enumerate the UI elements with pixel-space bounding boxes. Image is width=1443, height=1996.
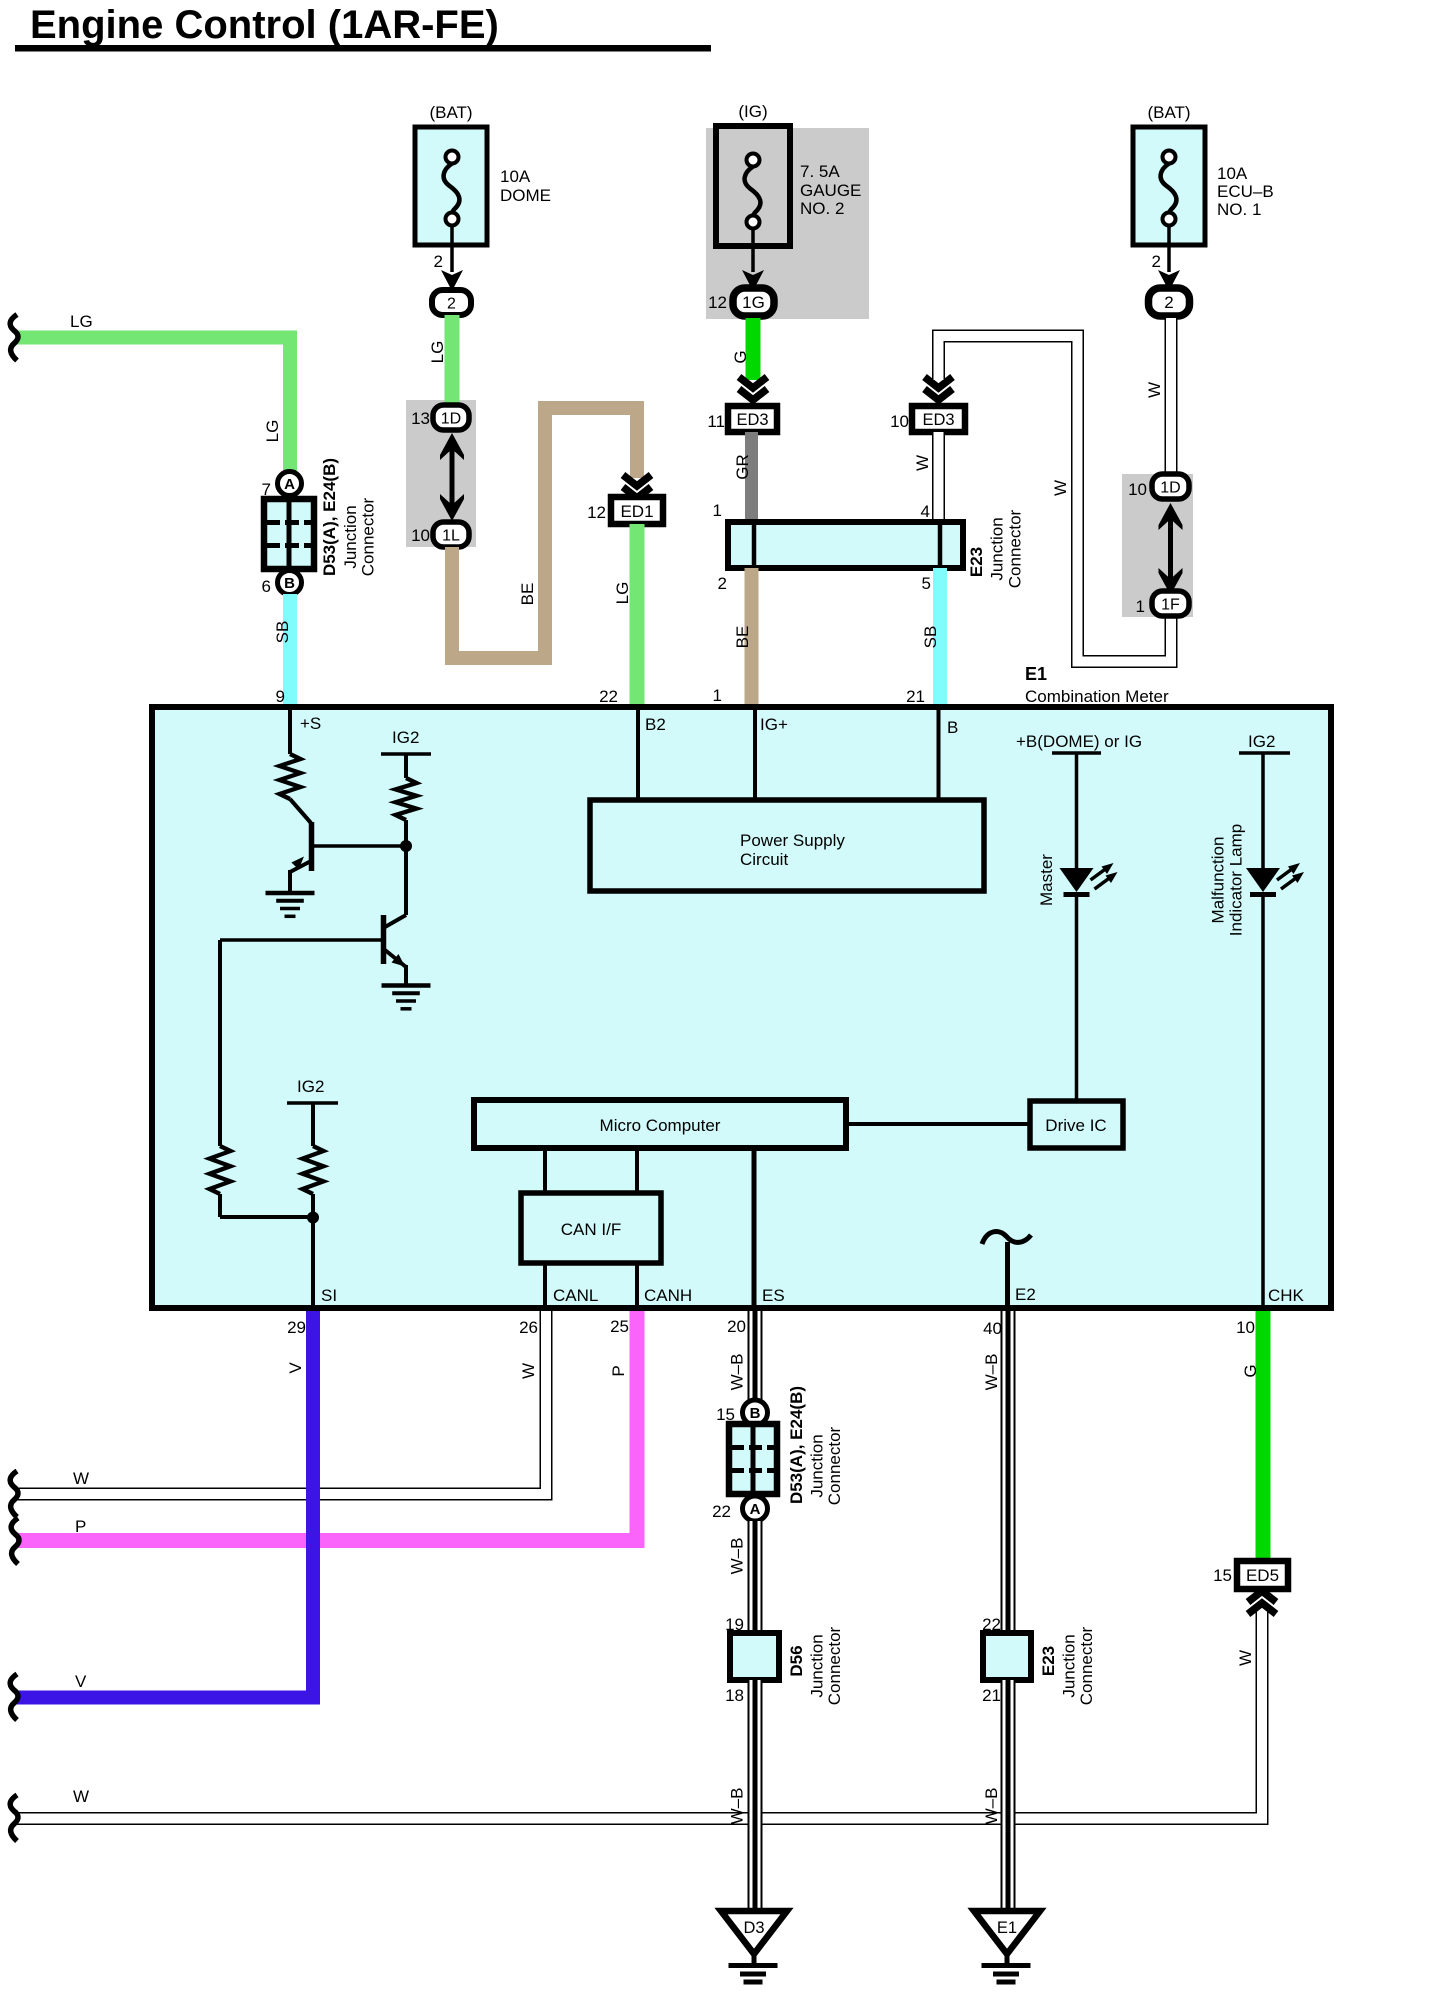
svg-text:E23: E23 <box>967 547 986 577</box>
svg-text:12: 12 <box>587 503 606 522</box>
svg-text:7. 5A: 7. 5A <box>800 162 840 181</box>
LED Master <box>1037 854 1118 906</box>
pin name labels bottom <box>321 1285 1305 1305</box>
ground (Q1 emitter) <box>266 891 315 896</box>
svg-text:2: 2 <box>718 574 727 593</box>
wire LG (DOME fuse to 1D) <box>428 315 452 405</box>
svg-text:Combination Meter: Combination Meter <box>1025 687 1169 706</box>
svg-text:40: 40 <box>983 1319 1002 1338</box>
svg-text:(IG): (IG) <box>738 102 767 121</box>
node (R3/R4/SI junction) <box>307 1212 319 1224</box>
svg-text:20: 20 <box>727 1317 746 1336</box>
transistor Q1 <box>290 799 406 891</box>
svg-text:ECU–B: ECU–B <box>1217 182 1274 201</box>
wire W-B (D56 to ground D3) <box>725 1680 755 1908</box>
svg-text:W: W <box>913 455 932 471</box>
wires micro computer to CAN I/F <box>543 1148 547 1193</box>
svg-text:1L: 1L <box>442 527 460 544</box>
svg-text:Junction: Junction <box>808 1634 827 1697</box>
svg-text:Power Supply: Power Supply <box>740 831 845 850</box>
svg-text:10: 10 <box>411 526 430 545</box>
svg-text:W: W <box>1051 480 1070 496</box>
svg-text:IG2: IG2 <box>1248 732 1275 751</box>
wire ES <box>752 1148 757 1305</box>
junction connector E23 (top) <box>728 509 1025 588</box>
svg-text:W: W <box>73 1787 89 1806</box>
svg-text:+S: +S <box>300 714 321 733</box>
svg-text:CHK: CHK <box>1268 1286 1305 1305</box>
svg-text:BE: BE <box>518 583 537 606</box>
wire LG (ED1 to combination meter pin 22) <box>599 524 637 706</box>
svg-text:13: 13 <box>411 409 430 428</box>
svg-text:Indicator Lamp: Indicator Lamp <box>1227 824 1246 936</box>
wire V (SI pin 29 to left break) <box>10 1311 313 1720</box>
connector ED3 pin 10 <box>890 377 965 432</box>
wire W (ED3 pin10 to E23 pin 4) <box>913 432 939 522</box>
svg-text:D53(A), E24(B): D53(A), E24(B) <box>320 458 339 576</box>
svg-text:Connector: Connector <box>1077 1626 1096 1705</box>
wire G (1G to ED3 pin 11) <box>731 318 753 380</box>
svg-text:LG: LG <box>428 341 447 364</box>
svg-text:W–B: W–B <box>728 1354 747 1391</box>
svg-text:Junction: Junction <box>1060 1634 1079 1697</box>
gray background GAUGE fuse area <box>706 128 869 319</box>
wire LG (left harness break to junction connector A) <box>10 312 290 471</box>
connector circle A (D53/E24) <box>712 1496 767 1521</box>
svg-text:IG+: IG+ <box>760 715 788 734</box>
svg-text:B: B <box>284 575 295 592</box>
svg-text:Connector: Connector <box>1006 509 1025 588</box>
svg-text:ED3: ED3 <box>922 411 954 429</box>
wire B2 to power supply <box>636 710 640 798</box>
svg-text:W: W <box>1145 382 1164 398</box>
svg-text:1F: 1F <box>1161 596 1180 613</box>
connector oval 1G <box>708 288 774 316</box>
wire SB (junction connector B to pin 9) <box>273 594 292 706</box>
wire W-B (E2 pin 40 to E23 junction) <box>982 1311 1008 1634</box>
svg-text:21: 21 <box>906 687 925 706</box>
svg-text:V: V <box>75 1672 87 1691</box>
pin name labels top <box>300 714 958 737</box>
svg-text:B: B <box>947 718 958 737</box>
svg-text:ED5: ED5 <box>1246 1566 1279 1585</box>
svg-text:W–B: W–B <box>728 1538 747 1575</box>
wire W-B (A to D56) <box>725 1521 755 1634</box>
svg-text:1: 1 <box>713 686 722 705</box>
label E1 Combination Meter <box>1025 664 1169 706</box>
svg-text:W–B: W–B <box>728 1788 747 1825</box>
wire B to power supply <box>937 710 941 798</box>
svg-text:E23: E23 <box>1039 1646 1058 1676</box>
connector circle B (D53/E24) <box>716 1400 767 1425</box>
wire +S to resistor <box>288 710 292 754</box>
svg-text:4: 4 <box>921 502 930 521</box>
wire SB (E23 pin 5 to combination meter pin 21) <box>906 568 940 706</box>
svg-text:LG: LG <box>70 312 93 331</box>
wire W-B (ES pin 20 down to ground D3) <box>728 1311 756 1401</box>
svg-text:A: A <box>750 1501 761 1518</box>
wire W loop (ED3 pin10 up over to 1F) <box>939 336 1172 662</box>
svg-text:5: 5 <box>922 574 931 593</box>
svg-text:NO. 1: NO. 1 <box>1217 200 1261 219</box>
svg-text:2: 2 <box>434 252 443 271</box>
svg-text:DOME: DOME <box>500 186 551 205</box>
svg-text:Connector: Connector <box>359 497 378 576</box>
svg-text:D3: D3 <box>743 1919 764 1937</box>
transistor Q2 <box>220 915 406 984</box>
svg-text:2: 2 <box>1152 252 1161 271</box>
terminal IG2 (right) <box>1239 732 1290 868</box>
ground (Q2 emitter) <box>382 983 431 988</box>
svg-text:1: 1 <box>1136 597 1145 616</box>
terminal IG2 (lower) <box>287 1077 338 1146</box>
power supply circuit box <box>590 800 984 891</box>
micro computer box <box>474 1100 846 1148</box>
fuse 10A DOME (BAT) <box>415 103 551 245</box>
svg-text:CANL: CANL <box>553 1286 598 1305</box>
svg-text:G: G <box>1241 1364 1260 1377</box>
svg-text:GR: GR <box>733 454 752 480</box>
svg-text:CANH: CANH <box>644 1286 692 1305</box>
svg-text:Drive IC: Drive IC <box>1045 1116 1106 1135</box>
node E2 break symbol <box>982 1232 1031 1244</box>
LED Malfunction Indicator Lamp <box>1209 824 1305 936</box>
svg-text:D53(A), E24(B): D53(A), E24(B) <box>787 1386 806 1504</box>
wire IG+ to power supply <box>753 710 757 798</box>
connector oval 2 (ECU-B) <box>1149 288 1190 316</box>
svg-text:P: P <box>609 1365 628 1376</box>
svg-text:Junction: Junction <box>808 1434 827 1497</box>
junction connector E23 bottom <box>983 1626 1096 1705</box>
svg-text:E1: E1 <box>1025 664 1047 684</box>
connector oval 2 (DOME) <box>432 290 471 315</box>
wire W (ECU-B fuse to 1D) <box>1145 318 1171 474</box>
svg-text:SI: SI <box>321 1286 337 1305</box>
svg-text:SB: SB <box>921 626 940 649</box>
svg-text:W: W <box>519 1363 538 1379</box>
svg-text:W–B: W–B <box>982 1354 1001 1391</box>
drive IC box <box>1030 1101 1123 1148</box>
wire W (left break along bottom to ED5) <box>10 1612 1262 1841</box>
wire P (CANH pin 25 to left break) <box>11 1311 637 1564</box>
wire W (CANL pin 26 to left break) <box>10 1311 546 1517</box>
wire LED to CHK <box>1261 896 1265 1305</box>
fuse 10A ECU-B NO.1 (BAT) <box>1133 103 1274 245</box>
svg-text:10: 10 <box>1236 1318 1255 1337</box>
svg-text:W: W <box>73 1469 89 1488</box>
svg-text:22: 22 <box>599 687 618 706</box>
svg-text:W: W <box>1236 1650 1255 1666</box>
svg-text:Malfunction: Malfunction <box>1209 837 1228 924</box>
wire from DOME fuse pin 2 <box>434 225 463 291</box>
connector ED5 <box>1213 1561 1288 1614</box>
svg-text:6: 6 <box>262 577 271 596</box>
svg-text:ES: ES <box>762 1286 785 1305</box>
svg-text:B: B <box>750 1405 761 1422</box>
svg-text:(BAT): (BAT) <box>1147 103 1190 122</box>
svg-text:LG: LG <box>263 420 282 443</box>
svg-text:GAUGE: GAUGE <box>800 181 861 200</box>
svg-text:12: 12 <box>708 293 727 312</box>
svg-text:W–B: W–B <box>982 1788 1001 1825</box>
svg-text:NO. 2: NO. 2 <box>800 199 844 218</box>
svg-text:ED3: ED3 <box>736 411 768 429</box>
svg-text:Connector: Connector <box>825 1626 844 1705</box>
junction connector D56 <box>730 1626 844 1705</box>
ground E1 <box>974 1911 1040 1982</box>
wire BE (1L to ED1) <box>452 408 637 658</box>
svg-text:21: 21 <box>982 1686 1001 1705</box>
connector ED3 pin 11 <box>707 377 777 432</box>
wire W-B (E23 to ground E1) <box>982 1680 1008 1908</box>
svg-text:Circuit: Circuit <box>740 850 788 869</box>
svg-text:SB: SB <box>273 621 292 644</box>
svg-text:1D: 1D <box>1160 479 1180 496</box>
connector 1D/1F <box>1128 474 1189 616</box>
wire from GAUGE fuse to 1G <box>742 228 764 291</box>
svg-text:10: 10 <box>890 412 909 431</box>
terminal +B(DOME) or IG <box>1016 732 1142 868</box>
svg-text:D56: D56 <box>787 1645 806 1676</box>
svg-text:2: 2 <box>447 295 456 312</box>
svg-text:18: 18 <box>725 1686 744 1705</box>
wire SI <box>311 1220 315 1305</box>
svg-text:G: G <box>731 350 750 363</box>
resistor R4 <box>303 1146 324 1194</box>
svg-text:CAN I/F: CAN I/F <box>561 1220 621 1239</box>
wire CANH <box>635 1263 639 1305</box>
svg-text:26: 26 <box>519 1318 538 1337</box>
svg-text:10A: 10A <box>500 167 531 186</box>
wire CANL <box>543 1263 547 1305</box>
junction connector D53(A), E24(B) top <box>262 458 378 596</box>
svg-text:10: 10 <box>1128 480 1147 499</box>
svg-text:(BAT): (BAT) <box>429 103 472 122</box>
svg-text:15: 15 <box>1213 1566 1232 1585</box>
svg-text:B2: B2 <box>645 715 666 734</box>
svg-text:IG2: IG2 <box>392 728 419 747</box>
svg-text:2: 2 <box>1164 293 1173 312</box>
svg-text:11: 11 <box>707 412 725 431</box>
svg-text:9: 9 <box>276 687 285 706</box>
svg-text:+B(DOME) or IG: +B(DOME) or IG <box>1016 732 1142 751</box>
svg-text:ED1: ED1 <box>620 502 653 521</box>
resistor R3 <box>210 1146 231 1194</box>
svg-text:22: 22 <box>712 1502 731 1521</box>
wire from ECU-B fuse pin 2 <box>1152 225 1180 291</box>
svg-text:Engine Control (1AR-FE): Engine Control (1AR-FE) <box>30 3 499 47</box>
svg-text:Micro Computer: Micro Computer <box>600 1116 721 1135</box>
connector 1D/1L <box>411 405 469 547</box>
wire LED to drive IC <box>1075 896 1079 1101</box>
ground D3 <box>721 1911 787 1982</box>
svg-text:P: P <box>75 1517 86 1536</box>
svg-text:1G: 1G <box>742 293 765 312</box>
svg-text:Master: Master <box>1037 854 1056 906</box>
svg-text:Junction: Junction <box>988 517 1007 580</box>
svg-text:1: 1 <box>713 501 722 520</box>
svg-text:29: 29 <box>287 1318 306 1337</box>
node (R2 / Q1 base junction) <box>400 840 412 852</box>
wire Q2 base to R3 <box>218 940 222 1146</box>
junction connector D53(A), E24(B) bottom <box>729 1386 844 1505</box>
svg-text:E2: E2 <box>1015 1285 1036 1304</box>
svg-text:BE: BE <box>733 626 752 649</box>
combination meter box E1 <box>152 707 1331 1308</box>
gray background connector 1D/1L <box>406 400 476 547</box>
svg-text:LG: LG <box>613 582 632 605</box>
svg-text:Junction: Junction <box>341 505 360 568</box>
resistor R2 <box>396 778 417 820</box>
wire G (CHK pin 10 to ED5) <box>1241 1311 1263 1564</box>
svg-text:10A: 10A <box>1217 164 1248 183</box>
terminal IG2 (upper) <box>381 728 431 778</box>
connector ED1 <box>587 475 663 524</box>
svg-text:1D: 1D <box>441 410 461 427</box>
svg-text:Connector: Connector <box>825 1426 844 1505</box>
wire E2 <box>1005 1242 1010 1305</box>
svg-text:25: 25 <box>610 1317 629 1336</box>
wire micro computer to drive IC <box>846 1122 1030 1126</box>
resistor R1 <box>280 754 301 799</box>
CAN I/F box <box>521 1193 661 1263</box>
svg-text:IG2: IG2 <box>297 1077 324 1096</box>
fuse 7.5A GAUGE NO.2 (IG) <box>716 102 861 246</box>
pin numbers bottom <box>287 1317 1255 1338</box>
svg-text:E1: E1 <box>997 1919 1017 1937</box>
wire BE (E23 pin 2 to combination meter pin 1) <box>713 568 752 706</box>
gray background connector 1D/1F <box>1122 474 1193 617</box>
svg-text:V: V <box>286 1362 305 1374</box>
wire GR (ED3 to E23 junction connector pin 1) <box>713 432 752 522</box>
svg-text:A: A <box>284 476 295 493</box>
